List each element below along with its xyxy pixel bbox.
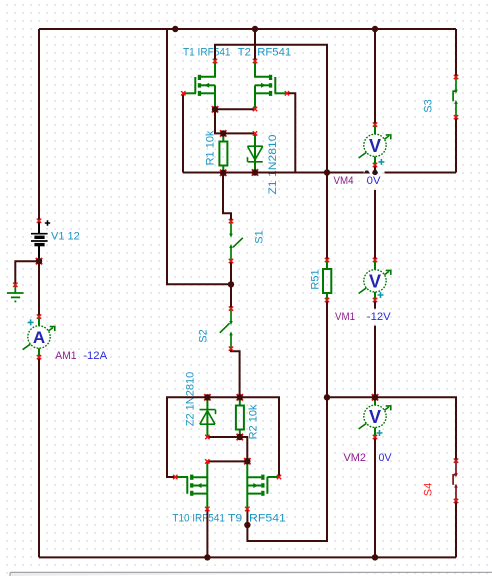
node S2 pin1 bbox=[229, 306, 233, 310]
svg-text:Z2 1N2810: Z2 1N2810 bbox=[185, 372, 197, 426]
wire T10 drain to bottom rail bbox=[206, 509, 208, 557]
node T2 gate bbox=[285, 91, 289, 95]
svg-text:V: V bbox=[369, 407, 381, 427]
node T1 drain bbox=[213, 59, 217, 63]
svg-text:T2 IRF541: T2 IRF541 bbox=[238, 47, 292, 59]
node T10 source bbox=[205, 459, 209, 463]
node T2 drain bbox=[253, 59, 257, 63]
switch S3 bbox=[453, 77, 456, 117]
wire mid rail y=172 right part bbox=[385, 172, 457, 174]
svg-text:T10 IRF541: T10 IRF541 bbox=[172, 513, 225, 525]
junction R2 bottom bbox=[237, 434, 243, 440]
wire bottom box top rail bbox=[167, 397, 279, 477]
zener diode Z1 bbox=[248, 134, 263, 173]
svg-text:S1: S1 bbox=[254, 230, 266, 243]
wire x=327 down to T9 drain bbox=[247, 397, 327, 541]
svg-text:-12A: -12A bbox=[83, 350, 107, 362]
switch S4 bbox=[453, 461, 456, 501]
terminal X under junction dots bbox=[36, 106, 378, 464]
junction Z1 bottom bbox=[252, 169, 258, 175]
svg-text:-12V: -12V bbox=[367, 311, 391, 323]
wire T1 source to R1 row bbox=[215, 109, 255, 133]
svg-text:AM1: AM1 bbox=[55, 350, 76, 362]
node S3 pin1 bbox=[454, 75, 458, 79]
voltmeter VM1 bbox=[359, 260, 391, 301]
wire T2 drain bbox=[254, 29, 256, 61]
svg-text:V: V bbox=[369, 271, 381, 291]
wire R51 top bbox=[326, 173, 328, 261]
node ground top bbox=[13, 283, 17, 287]
node T10 drain bbox=[205, 507, 209, 511]
resistor R51 bbox=[323, 260, 331, 300]
svg-text:0V: 0V bbox=[379, 452, 393, 464]
zener diode Z2 bbox=[200, 397, 216, 437]
battery V1 bbox=[31, 220, 50, 261]
wire VM1 bottom stub bbox=[374, 300, 376, 309]
junction VM4 bottom on rail bbox=[372, 170, 377, 175]
switch S1 bbox=[231, 222, 243, 262]
wire S4 bottom bbox=[455, 501, 457, 557]
junction top rail x=175 bbox=[172, 26, 178, 32]
node T9 drain bbox=[245, 507, 249, 511]
wire top rail bbox=[39, 28, 456, 30]
wire source row T10-T9 bbox=[207, 460, 247, 462]
junction Z2 top bbox=[204, 394, 210, 400]
wire source row T1-T2 bbox=[215, 108, 255, 110]
wire R1 to S1 jog bbox=[223, 173, 231, 221]
junction R1 bottom bbox=[220, 170, 226, 176]
junction top rail x=255 (T2 drain) bbox=[252, 26, 258, 32]
junction T1 source bbox=[212, 106, 218, 112]
node T2 source bbox=[253, 107, 257, 111]
svg-text:VM2: VM2 bbox=[344, 452, 367, 464]
node T9 gate bbox=[277, 475, 281, 479]
wire VM1 to VM2 bbox=[374, 326, 376, 397]
junction top rail x=375 (VM4) bbox=[372, 26, 378, 32]
svg-text:T9 IRF541: T9 IRF541 bbox=[228, 513, 286, 525]
junction V1 minus / ground bbox=[36, 258, 42, 264]
junction mid rail x=327 bbox=[324, 169, 330, 175]
svg-text:A: A bbox=[33, 328, 45, 347]
svg-text:R1 10k: R1 10k bbox=[205, 130, 217, 165]
junction node x=327 y=397 bbox=[324, 394, 330, 400]
voltmeter VM2 bbox=[359, 397, 391, 437]
wire VM1 top bbox=[374, 190, 376, 260]
resistor R1 bbox=[219, 134, 227, 174]
node R51 pin1 bbox=[325, 258, 329, 262]
wire AM1 to bottom rail bbox=[38, 358, 40, 558]
wire right rail above S3 bbox=[455, 29, 457, 77]
wire S1 to S2 bbox=[230, 261, 232, 308]
terminal X marks bbox=[13, 59, 458, 511]
wire inner rail y=437 bbox=[207, 437, 247, 461]
node V1 plus bbox=[37, 219, 41, 223]
junction S1-S2 node bbox=[228, 281, 234, 287]
wire T1 gate to mid rail bbox=[182, 93, 184, 172]
node S3 pin2 bbox=[454, 115, 458, 119]
svg-text:V1 12: V1 12 bbox=[51, 231, 80, 243]
voltmeter VM4 bbox=[359, 125, 391, 166]
node AM1 minus bbox=[37, 355, 41, 359]
node S1 pin2 bbox=[229, 259, 233, 263]
ammeter AM1 bbox=[23, 317, 55, 357]
wire VM4 bottom stub bbox=[374, 166, 376, 173]
svg-text:S3: S3 bbox=[423, 99, 435, 112]
junction VM2 bottom on rail bbox=[372, 554, 378, 560]
node AM1 plus bbox=[37, 314, 41, 318]
node S2 pin2 bbox=[229, 347, 233, 351]
node VM1 plus pin bbox=[373, 258, 377, 262]
svg-text:VM1: VM1 bbox=[335, 311, 355, 323]
node S4 pin2 bbox=[454, 499, 458, 503]
svg-text:S2: S2 bbox=[198, 329, 210, 342]
junction R2 top bbox=[237, 394, 243, 400]
JUNCTION DOTS LAYER bbox=[36, 26, 378, 561]
transistor T10 bbox=[176, 462, 207, 510]
junction T9 drain node bbox=[244, 522, 250, 528]
node R51 pin2 bbox=[325, 298, 329, 302]
transistor T2 bbox=[255, 61, 287, 109]
node VM4 plus pin bbox=[373, 122, 377, 126]
transistor T9 bbox=[247, 461, 279, 509]
node Z1 top bbox=[253, 131, 257, 135]
wire R51 bottom to node bbox=[326, 300, 328, 397]
switch S2 bbox=[220, 309, 231, 349]
ground bbox=[7, 285, 24, 301]
wire ground branch bbox=[15, 261, 39, 284]
svg-text:0V: 0V bbox=[367, 175, 381, 187]
status bar bottom bbox=[10, 572, 492, 576]
resistor R2 bbox=[236, 397, 244, 437]
node T10 gate bbox=[173, 475, 177, 479]
node S4 pin1 bbox=[454, 459, 458, 463]
wire T2 gate to mid rail bbox=[287, 93, 295, 172]
wire V1 to AM1 bbox=[38, 246, 40, 316]
wire node to S4 branch bbox=[327, 397, 456, 460]
svg-text:R2 10k: R2 10k bbox=[248, 404, 260, 439]
svg-text:Z1 1N2810: Z1 1N2810 bbox=[267, 135, 279, 195]
node VM4 minus pin bbox=[373, 163, 377, 167]
svg-text:T1 IRF541: T1 IRF541 bbox=[183, 47, 231, 59]
wire right rail below S3 bbox=[455, 118, 457, 173]
wire VM2 bottom bbox=[374, 437, 376, 557]
wire left rail top (to V1) bbox=[38, 29, 40, 221]
svg-text:V: V bbox=[369, 136, 381, 156]
junction VM2 top bbox=[372, 394, 378, 400]
wire bottom rail bbox=[39, 556, 456, 558]
junction R1 top bbox=[220, 130, 226, 136]
wire S1 left rail bbox=[167, 29, 231, 284]
node T1 gate bbox=[181, 91, 185, 95]
svg-text:S4: S4 bbox=[423, 483, 435, 496]
wire mid rail y=172 left part bbox=[183, 172, 364, 174]
wire VM4 top bbox=[374, 29, 376, 124]
node Z2 bottom bbox=[205, 435, 209, 439]
node VM2 minus pin bbox=[373, 435, 377, 439]
svg-text:VM4: VM4 bbox=[334, 175, 354, 187]
wire S2 to R2 jog bbox=[231, 349, 240, 397]
junction T9 source bbox=[244, 458, 250, 464]
VM4 pin marks on rail bbox=[364, 168, 379, 174]
node VM1 minus pin bbox=[373, 298, 377, 302]
junction T10 drain on bottom rail bbox=[204, 554, 210, 560]
svg-text:R51: R51 bbox=[310, 269, 322, 289]
wire T1 drain to x=327 rail bbox=[215, 45, 327, 173]
node S1 pin1 bbox=[229, 219, 233, 223]
transistor T1 bbox=[184, 61, 215, 109]
